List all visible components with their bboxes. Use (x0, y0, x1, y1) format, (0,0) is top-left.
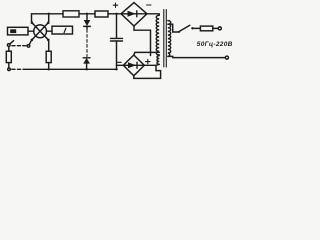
wire lamp BL to contact b (29, 40, 31, 44)
wire primary bottom (168, 56, 225, 57)
wire R3 to bottom contact (8, 63, 10, 68)
terminal XS2 (225, 56, 228, 59)
wire top rail left segment (32, 13, 64, 15)
wire contact a to R3 (8, 46, 10, 51)
node junction top rail left (48, 13, 50, 15)
resistor R4 (46, 51, 51, 62)
switch S1 mechanical link (dashed) (12, 45, 27, 47)
wire lamp to X2 (46, 30, 52, 32)
svg-text:50Гц-220В: 50Гц-220В (197, 41, 233, 48)
wire R4 to bottom rail (48, 63, 50, 70)
fuse FU1 (200, 26, 218, 31)
terminal XS1 (218, 27, 221, 30)
label plus VD4 (146, 59, 150, 63)
wire cap bottom (116, 41, 118, 69)
wire top rail middle segment (79, 13, 95, 15)
wire VD3 right to winding (147, 14, 159, 16)
transformer T1 core (164, 10, 167, 68)
wire contact to fuse (192, 27, 200, 29)
switch S2 fixed contact (191, 27, 193, 29)
label plus VD3 (113, 3, 117, 7)
wire lamp right drop (48, 14, 50, 22)
wire cap top (116, 14, 118, 38)
wire lamp left drop (31, 14, 33, 22)
label minus VD4 (117, 61, 121, 63)
switch S1 bottom contact (8, 68, 11, 71)
wire secondary tap (134, 52, 159, 55)
capacitor C1 (111, 38, 123, 41)
wire dashed link VD1-VD2 (86, 30, 88, 57)
wire bottom rail (27, 68, 117, 70)
label minus VD3 (147, 4, 152, 6)
transformer T1 secondary winding lower (157, 56, 159, 65)
wire VD3 bottom loop (134, 26, 151, 56)
wire primary top to switch (168, 24, 180, 32)
wire VD4 bottom loop (134, 71, 161, 79)
switch S1 contact a (7, 44, 10, 47)
wire top rail right segment (108, 13, 121, 15)
box X1 label box left (8, 27, 29, 35)
switch S1 contact b (27, 45, 30, 48)
wire VD4 right to winding (144, 65, 156, 70)
wire winding bottom lead (156, 63, 159, 66)
rectifier bridge VD3 (121, 3, 147, 26)
wire lamp BR drop to R4 (48, 40, 50, 51)
transformer T1 secondary winding upper (156, 15, 159, 55)
transformer T1 primary winding (168, 21, 171, 57)
node junction bottom rail R4 (48, 68, 50, 70)
switch S1 lever (10, 41, 14, 44)
lamp HL1 (30, 21, 50, 41)
node junction bottom rail cap (115, 68, 117, 70)
wire X1 to lamp (28, 30, 34, 32)
node junction top rail middle (86, 13, 88, 15)
node junction bottom rail VD2 (85, 68, 87, 70)
wire bottom dashed link (12, 68, 27, 70)
diode VD1 (84, 14, 91, 29)
rectifier bridge VD4 (123, 55, 144, 76)
box X2 label box right (52, 26, 73, 34)
switch S2 lever (179, 25, 190, 32)
resistor R3 (6, 51, 11, 62)
diode VD2 (83, 58, 90, 70)
node junction top rail right (115, 13, 117, 15)
resistor R1 (63, 11, 79, 17)
resistor R2 (95, 11, 108, 17)
wire VD4 left (117, 64, 124, 66)
